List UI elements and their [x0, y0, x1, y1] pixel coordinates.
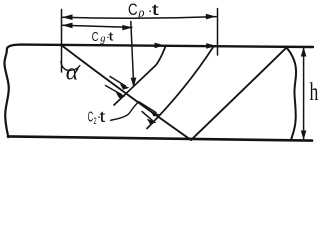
svg-text:t: t: [100, 109, 106, 126]
svg-text:t: t: [152, 2, 160, 19]
svg-text:g: g: [100, 34, 105, 45]
svg-text:α: α: [66, 59, 79, 85]
svg-text:ρ: ρ: [138, 6, 145, 20]
svg-text:C: C: [92, 29, 99, 44]
svg-text:h: h: [310, 79, 319, 106]
svg-text:C: C: [128, 1, 138, 19]
